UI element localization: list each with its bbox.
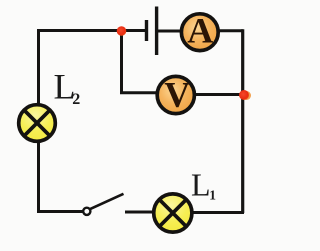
voltmeter V (157, 75, 194, 115)
ammeter A (181, 11, 218, 51)
wire lamp L1 to bottom-right corner (192, 211, 244, 214)
switch S1 pivot (83, 208, 90, 215)
wire voltmeter branch left horizontal (120, 91, 158, 94)
svg-text:L: L (191, 167, 211, 203)
wire left vertical lower (lamp L2 to bottom corner) (37, 142, 40, 213)
wire top-left horizontal (corner to battery) (37, 29, 146, 32)
wire ammeter to top-right corner (218, 29, 243, 32)
svg-text:2: 2 (72, 91, 80, 108)
wire battery to ammeter (157, 30, 183, 33)
wire left vertical upper (corner to lamp L2) (37, 29, 40, 104)
wire switch to lamp L1 (125, 211, 154, 214)
battery positive plate (long) (155, 7, 158, 56)
svg-text:A: A (187, 11, 213, 51)
battery negative plate (short) (145, 20, 148, 41)
lamp L1 (circle with X) (154, 194, 192, 232)
wire right vertical (241, 29, 244, 213)
switch S1 blade (90, 194, 124, 210)
node right (red junction dot) (242, 91, 251, 100)
lamp L2 (circle with X) (19, 105, 56, 142)
node left (red junction dot) (117, 26, 127, 36)
svg-text:V: V (164, 75, 190, 115)
wire voltmeter branch right horizontal (194, 93, 245, 96)
wire bottom-left horizontal (corner to switch) (37, 210, 84, 213)
svg-text:1: 1 (209, 188, 216, 203)
wire voltmeter branch vertical from node A (120, 31, 123, 93)
